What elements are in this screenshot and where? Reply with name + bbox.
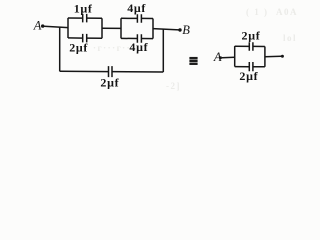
svg-text:4μf: 4μf	[127, 1, 146, 15]
svg-text:2μf: 2μf	[69, 40, 88, 54]
svg-text:·г···г··: ·г···г··	[93, 43, 131, 53]
svg-text:4μf: 4μf	[129, 40, 148, 54]
svg-text:A: A	[213, 50, 222, 64]
svg-text:A: A	[33, 19, 42, 33]
svg-text:( 1 ) A0A: ( 1 ) A0A	[246, 7, 298, 17]
svg-text:2μf: 2μf	[242, 29, 261, 43]
svg-text:B: B	[182, 23, 190, 37]
svg-text:2μf: 2μf	[239, 69, 258, 83]
svg-text:1μf: 1μf	[74, 1, 93, 15]
svg-text:lol: lol	[283, 33, 297, 43]
svg-text:-2]: -2]	[166, 81, 181, 91]
svg-text:2μf: 2μf	[100, 76, 119, 90]
